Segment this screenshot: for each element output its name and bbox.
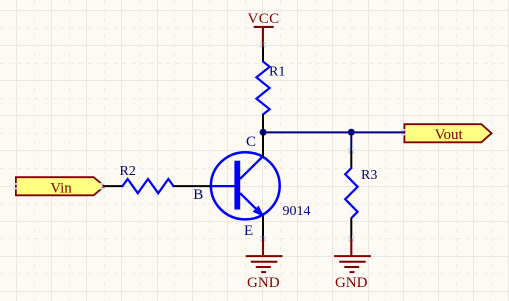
port Vout [404,124,491,143]
hotspot marks at R3 pin / GND junction [348,236,354,242]
svg-text:Vin: Vin [50,180,72,196]
svg-text:VCC: VCC [247,11,279,27]
svg-text:Vout: Vout [435,127,464,143]
resistor R3 [345,151,357,239]
emitter arrow [254,206,264,216]
resistor R1 [256,46,269,132]
svg-text:B: B [193,187,203,203]
collector pin [262,132,264,157]
collector line [240,156,263,179]
svg-text:R1: R1 [269,65,285,80]
junction at R3 top [348,129,355,136]
power port VCC [247,11,279,47]
svg-text:C: C [246,134,256,150]
ground GND (left, emitter) [246,239,283,273]
emitter line [240,193,263,216]
svg-text:GND: GND [247,275,280,291]
resistor R2 [123,179,174,193]
hotspot marks at Vout left edge [401,129,407,135]
hotspot marks at R3 top pin junction [348,148,354,154]
port Vin [16,177,105,196]
wire: R2 to base [174,185,212,187]
ground GND (right, R3) [334,239,371,273]
hotspot marks at emitter pin / GND junction [260,236,266,242]
emitter pin [262,216,264,239]
transistor body circle [211,152,280,219]
junction node C [260,129,267,136]
svg-text:GND: GND [335,275,368,291]
wire: junction to R3 [350,132,352,151]
wire: Vin port to R2 [104,185,123,187]
svg-text:9014: 9014 [283,204,311,219]
wire: node C to Vout port [263,131,404,133]
hotspot marks at VCC pin junction [260,42,266,48]
svg-text:E: E [244,223,253,239]
svg-text:R2: R2 [120,164,136,179]
base bar [234,161,240,210]
svg-text:R3: R3 [361,168,377,183]
base line inside transistor [211,185,235,187]
hotspot marks at Vin tip [13,183,104,189]
transistor Q1 9014 [211,132,280,239]
